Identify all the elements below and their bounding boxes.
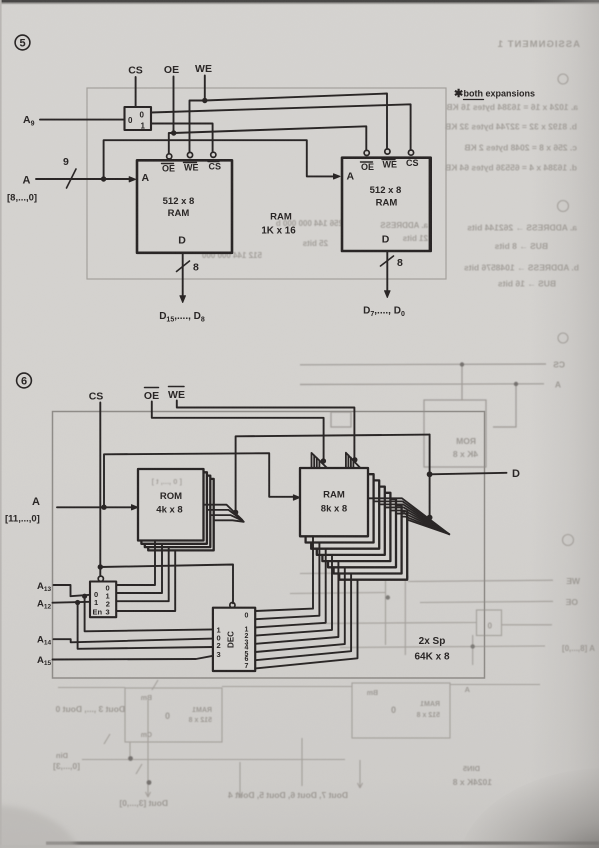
pin bubble WE (U3) [385, 149, 390, 154]
wire RAM select 2 from U6 [255, 549, 325, 628]
wire A12 branch to decoder U6 [78, 603, 213, 649]
RAM chip U3 512x8 (right) [342, 158, 431, 251]
svg-text:1: 1 [94, 598, 98, 607]
svg-text:4K x 8: 4K x 8 [453, 449, 478, 459]
svg-text:DEC: DEC [227, 631, 236, 648]
enable bubble U5 [98, 576, 103, 581]
svg-text:A: A [32, 496, 40, 508]
wire A15 to decoder U6 [53, 656, 213, 660]
svg-text:512 x 8: 512 x 8 [417, 712, 440, 719]
svg-text:512 x 8: 512 x 8 [189, 717, 212, 724]
wire OE vertical [173, 77, 175, 134]
wire RAM select 5 from U6 [255, 567, 344, 652]
bus width slash 9 [67, 169, 77, 188]
svg-text:OE: OE [361, 162, 374, 172]
svg-text:D7,...., D0: D7,...., D0 [363, 306, 405, 319]
top scan edge dark strip [0, 0, 599, 3]
svg-text:0: 0 [391, 705, 396, 715]
wire ROM select 2 from decoder U5 [116, 547, 169, 601]
svg-text:3: 3 [106, 608, 110, 617]
pin bubble CS (U3) [408, 150, 413, 155]
left scan edge [0, 0, 2, 848]
svg-text:b. ADDRESS → 1048576 bits: b. ADDRESS → 1048576 bits [464, 263, 579, 273]
svg-text:[11,...,0]: [11,...,0] [5, 514, 40, 525]
exercise number 5 (circled) [15, 35, 30, 50]
pencil frame around circuit 5 [87, 88, 446, 279]
svg-text:En: En [93, 608, 103, 617]
svg-text:d. 16384 x 4 = 65536 bytes 64: d. 16384 x 4 = 65536 bytes 64 KB [445, 163, 577, 173]
svg-text:A: A [142, 172, 150, 184]
svg-text:0: 0 [140, 111, 145, 120]
svg-text:4k x 8: 4k x 8 [156, 505, 182, 516]
ROM data bus fan [204, 505, 244, 522]
wire ROM select 0 from decoder U5 [116, 541, 155, 585]
svg-text:0: 0 [487, 622, 492, 631]
RAM bank (8 stacked chips 8Kx8) [300, 468, 407, 580]
junction D top [427, 471, 433, 477]
svg-text:0: 0 [245, 613, 249, 620]
enable bubble U6 [230, 603, 235, 608]
svg-text:1: 1 [141, 122, 146, 131]
wire A9 to selector [40, 119, 125, 121]
svg-text:RAM: RAM [376, 198, 398, 209]
svg-text:0: 0 [165, 711, 170, 721]
svg-text:2: 2 [217, 641, 221, 650]
svg-text:Cm: Cm [141, 732, 152, 739]
svg-text:WE: WE [168, 389, 185, 401]
svg-text:7: 7 [245, 663, 249, 670]
ROM bank (4 stacked chips 4Kx8) [138, 469, 214, 550]
junction A bus branch [101, 176, 106, 181]
wire OE to left RAM OE pin [169, 133, 174, 154]
svg-text:3: 3 [217, 650, 221, 659]
wire RAM select 6 from U6 [255, 574, 351, 661]
svg-text:both expansions: both expansions [464, 89, 536, 99]
svg-text:8: 8 [193, 262, 199, 274]
bus width slash 8 (U2 data) [177, 261, 190, 272]
junction WE at wedge [352, 457, 357, 462]
pin bubble CS (U2) [211, 152, 216, 157]
wire A bus into ROM bank [57, 506, 135, 508]
svg-text:Din: Din [56, 751, 69, 760]
heavy right edge of U3 [429, 159, 432, 250]
wire RAM select 0 from U6 [255, 536, 313, 611]
wire ROM data to D node [236, 435, 430, 513]
junction WE [202, 98, 207, 103]
bottom page edge line [0, 842, 599, 848]
wire OE to RAM bank wedge [152, 402, 324, 460]
svg-text:DIN5: DIN5 [463, 764, 480, 773]
svg-text:OE: OE [144, 390, 159, 402]
svg-text:0: 0 [128, 116, 133, 125]
svg-text:D: D [512, 468, 520, 480]
selector U1 (A9 demultiplexer) [125, 107, 152, 130]
svg-text:RAM: RAM [323, 490, 345, 501]
wire selector output 1 to left RAM CS pin [151, 124, 213, 153]
wire ROM select 1 from decoder U5 [116, 544, 162, 593]
svg-text:25 bits: 25 bits [302, 239, 328, 248]
svg-text:A: A [23, 175, 31, 187]
svg-text:Dout [3,...,0]: Dout [3,...,0] [119, 798, 168, 808]
wire OE to right RAM OE pin [174, 126, 367, 150]
junction CS branch [98, 564, 103, 569]
wire WE to RAM bank wedge [177, 401, 355, 459]
svg-text:c. 256 x 8 = 2048 bytes 2 KB: c. 256 x 8 = 2048 bytes 2 KB [464, 143, 577, 153]
svg-text:A [8,...,0]: A [8,...,0] [562, 644, 595, 653]
svg-text:BUS → 16 bits: BUS → 16 bits [498, 279, 556, 289]
wire RAM select 7 from U6 [255, 580, 357, 669]
svg-text:A: A [555, 380, 561, 390]
svg-text:a. 1024 x 16 = 16384 bytes 16: a. 1024 x 16 = 16384 bytes 16 KB [446, 102, 578, 112]
svg-text:6: 6 [245, 656, 249, 663]
overbars for U2 pin labels [162, 163, 174, 165]
pencil frame around circuit 6 [53, 412, 485, 679]
wire CS down to decoder U5 [99, 403, 101, 576]
wire CS branch to decoder U6 [100, 565, 233, 604]
svg-text:9: 9 [63, 156, 69, 168]
wire D vertical tap [429, 435, 431, 518]
svg-text:OE: OE [162, 164, 175, 174]
svg-text:CS: CS [209, 162, 222, 172]
wire WE to left RAM WE pin [190, 101, 205, 153]
svg-text:RAM: RAM [270, 212, 292, 223]
svg-text:2x Sp: 2x Sp [419, 636, 446, 647]
svg-text:21 bits: 21 bits [402, 234, 428, 243]
junction A bus branch [101, 505, 106, 510]
wire WE to right RAM WE pin [205, 94, 387, 149]
wire A12 into decoder U5 [53, 601, 91, 604]
wire A13 into decoder U5 [54, 585, 91, 596]
svg-text:ROM: ROM [456, 436, 476, 446]
bleed wires upper-right of circuit 6 [300, 364, 546, 467]
wire A bus branch to right RAM [104, 140, 335, 179]
svg-text:[0,...,3]: [0,...,3] [53, 761, 80, 771]
decoder U5 (2-to-4) [90, 582, 116, 618]
pin bubble WE (U2) [187, 152, 192, 157]
wire WE vertical [204, 76, 206, 101]
svg-text:5: 5 [19, 38, 25, 50]
decoder U6 (DEC 3-to-8) [213, 608, 255, 671]
svg-text:D: D [382, 234, 390, 246]
wire CS vertical into selector box [135, 77, 137, 107]
svg-text:CS: CS [406, 158, 419, 168]
wire RAM select 1 from U6 [255, 543, 319, 620]
svg-text:CS: CS [128, 65, 143, 77]
junction OE [171, 130, 176, 135]
wire selector output 0 to right RAM CS pin [151, 104, 411, 150]
bottom-left corner shading [0, 805, 80, 848]
exercise number 6 (circled) [17, 373, 32, 388]
svg-text:[8,...,0]: [8,...,0] [7, 193, 37, 204]
RAM data bus fan to D [368, 498, 449, 534]
junction D at fan [427, 515, 433, 521]
svg-text:RAM1: RAM1 [420, 701, 440, 708]
wire A14 to decoder U6 [54, 639, 213, 643]
svg-text:Bm: Bm [141, 695, 152, 702]
svg-text:RAM1: RAM1 [192, 707, 212, 714]
wire A bus into left RAM [36, 178, 133, 180]
svg-text:A: A [464, 685, 470, 694]
svg-text:WE: WE [383, 160, 398, 170]
wedge WE (comb, right) [346, 453, 360, 468]
pin bubble OE (U2) [167, 154, 172, 159]
bleed fragments visible inside U3 [380, 221, 428, 243]
svg-text:ASSIGNMENT 1: ASSIGNMENT 1 [497, 39, 580, 50]
wire D output of U3 [386, 251, 388, 292]
svg-text:D15,...., D8: D15,...., D8 [159, 311, 205, 324]
svg-text:Dout 3 ,..., Dout 0: Dout 3 ,..., Dout 0 [55, 704, 125, 714]
RAM chip U2 512x8 (left) [137, 160, 232, 253]
junction A13 branch [82, 594, 87, 599]
right edge shading [530, 0, 599, 848]
svg-text:1024K x 8: 1024K x 8 [453, 777, 492, 787]
bleed circuit at page bottom [58, 680, 540, 797]
svg-text:BUS → 8 bits: BUS → 8 bits [494, 241, 548, 251]
svg-text:CS: CS [553, 360, 565, 370]
svg-text:CS: CS [89, 391, 104, 403]
wire A bus branch to RAM bank [104, 453, 297, 507]
junction A12 branch [75, 600, 80, 605]
svg-text:✱: ✱ [454, 88, 463, 100]
svg-text:ROM: ROM [160, 491, 182, 502]
wire D output [430, 473, 507, 475]
svg-text:512 x 8: 512 x 8 [370, 185, 402, 196]
svg-text:A: A [347, 171, 355, 183]
bleed wires lower-right of circuit 6 [290, 545, 553, 665]
svg-text:a. ADDRESS → 262144 bits: a. ADDRESS → 262144 bits [467, 223, 577, 233]
svg-text:8: 8 [397, 257, 403, 269]
svg-text:Bm: Bm [367, 690, 378, 697]
wire ROM select 3 from decoder U5 [116, 551, 175, 611]
wire RAM select 4 from U6 [255, 561, 338, 644]
svg-text:8k x 8: 8k x 8 [321, 504, 347, 515]
wire D output of U2 [182, 253, 184, 297]
wire RAM select 3 from U6 [255, 555, 332, 636]
overbars for U3 pin labels [361, 161, 373, 163]
svg-text:RAM: RAM [168, 208, 190, 219]
bus width slash 8 (U3 data) [381, 256, 394, 266]
svg-text:OE: OE [164, 64, 179, 76]
wedge OE (write strobe comb, left) [312, 453, 327, 468]
svg-text:1K x 16: 1K x 16 [261, 226, 296, 237]
junction OE at wedge [321, 458, 326, 463]
svg-text:D: D [178, 235, 186, 247]
svg-text:OE: OE [565, 597, 578, 607]
bottom-right corner shadow [458, 768, 599, 848]
svg-text:6: 6 [21, 376, 27, 388]
svg-text:WE: WE [195, 63, 212, 75]
svg-text:WE: WE [566, 576, 580, 586]
svg-text:a. ADDRESS: a. ADDRESS [380, 221, 428, 230]
junction ROM data to D line [233, 510, 238, 515]
svg-text:[ 0 ,..., t ]: [ 0 ,..., t ] [151, 477, 182, 486]
svg-text:64K x 8: 64K x 8 [414, 652, 449, 663]
wire A13 branch to decoder U6 [85, 596, 213, 631]
svg-text:Dout 7, Dout 6, Dout 5, Dout 4: Dout 7, Dout 6, Dout 5, Dout 4 [228, 790, 348, 800]
pin bubble OE (U3) [364, 150, 369, 155]
svg-text:512 x 8: 512 x 8 [163, 196, 195, 207]
svg-text:b. 8192 x 32 = 32744 bytes 32: b. 8192 x 32 = 32744 bytes 32 KB [445, 122, 577, 132]
svg-text:WE: WE [184, 163, 199, 173]
